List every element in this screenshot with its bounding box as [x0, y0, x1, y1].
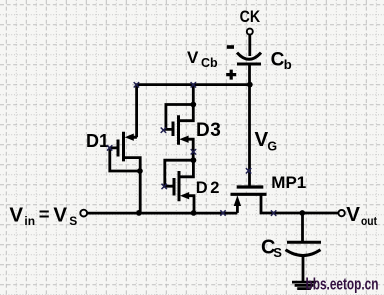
label Vout [346, 203, 377, 228]
wire CK to Cb top plate [248, 35, 251, 56]
pin marker MP1 gate wire [246, 168, 251, 173]
svg-text:V: V [346, 203, 360, 226]
node junction D1 drain on Vin rail [136, 210, 142, 216]
node junction D2 source on Vin rail [191, 210, 197, 216]
pin marker Vout wire at MP1 drain [271, 210, 276, 215]
label Cb [271, 50, 292, 72]
svg-text:C: C [271, 50, 285, 71]
label minus polarity of Cb [227, 45, 234, 49]
pin marker D1 gate [107, 145, 112, 150]
pin marker D3 source / D2 drain wire [191, 149, 196, 154]
svg-text:D3: D3 [196, 120, 221, 141]
wire rail drop to D3 drain [192, 85, 195, 105]
svg-text:D1: D1 [86, 131, 109, 151]
node CK terminal [240, 7, 261, 35]
svg-text:V: V [53, 204, 67, 227]
node Vout terminal [338, 210, 344, 216]
svg-text:CK: CK [240, 7, 261, 26]
label Vin = VS [9, 203, 77, 228]
ground [292, 282, 316, 289]
wire top rail and drop to D1 source [137, 85, 250, 138]
capacitor Cb [237, 53, 261, 64]
capacitor CS [286, 242, 322, 255]
node junction Cb / rail [247, 82, 253, 88]
pin marker D2 gate [162, 184, 167, 189]
wire MP1 drain to Vout [261, 194, 338, 213]
pin marker D3 gate [161, 128, 166, 133]
pin marker Vin rail at MP1 source [220, 210, 225, 215]
wire VG rail to MP1 gate [248, 85, 251, 186]
svg-text:in: in [24, 214, 35, 228]
svg-text:D2: D2 [196, 179, 222, 197]
svg-text:G: G [267, 140, 277, 154]
label plus polarity of Cb [226, 70, 236, 80]
svg-text:b: b [284, 57, 292, 72]
svg-text:S: S [273, 245, 282, 260]
wire CS to ground [302, 256, 305, 281]
wire Vout node down to CS [301, 213, 304, 242]
pin marker on rail at D3 drain riser [191, 82, 196, 87]
label VCb [187, 48, 218, 70]
transistor MP1 switch MOSFET [231, 187, 267, 213]
node junction Vout / CS [299, 210, 305, 216]
svg-text:bbs.eetop.cn: bbs.eetop.cn [306, 276, 379, 294]
svg-text:out: out [361, 216, 377, 228]
transistor D3 diode-connected MOSFET [166, 102, 196, 160]
wire Vin rail to MP1 source [88, 212, 238, 215]
node Vin terminal [80, 210, 87, 217]
svg-text:V: V [255, 128, 269, 151]
svg-text:V: V [9, 204, 23, 227]
label CS [261, 237, 282, 260]
svg-text:V: V [187, 48, 199, 67]
label VG node [255, 128, 278, 153]
transistor D1 diode-connected MOSFET [110, 132, 143, 213]
svg-text:MP1: MP1 [271, 173, 306, 192]
svg-text:S: S [69, 214, 77, 228]
wire Cb bottom plate to top rail [248, 64, 251, 85]
svg-text:Cb: Cb [201, 56, 218, 70]
svg-text:=: = [39, 203, 50, 224]
transistor D2 diode-connected MOSFET [165, 157, 197, 213]
pin marker on rail left end [134, 82, 139, 87]
